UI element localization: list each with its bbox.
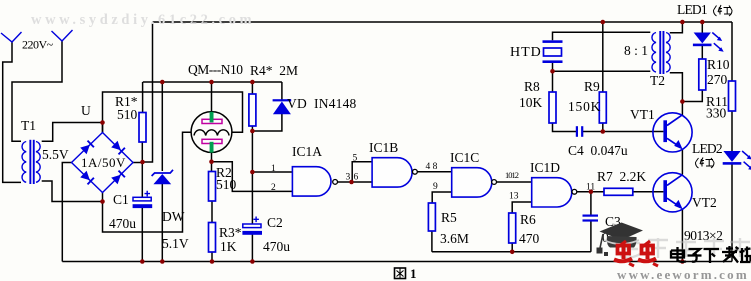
node VT1 collector junction <box>680 99 685 104</box>
svg-text:DW: DW <box>162 209 185 224</box>
resistor R8 <box>549 92 556 123</box>
wire sensor top lead <box>211 82 213 112</box>
glyph zai <box>722 246 739 263</box>
svg-text:470: 470 <box>519 231 540 246</box>
svg-text:C1: C1 <box>113 192 129 207</box>
svg-text:R3*: R3* <box>219 225 242 240</box>
svg-text:6: 6 <box>354 173 359 183</box>
svg-text:R10: R10 <box>707 57 730 72</box>
wire U node to bridge top <box>102 123 104 134</box>
svg-text:13: 13 <box>509 192 519 202</box>
gas sensor QM-N10 <box>191 112 232 153</box>
svg-text:R7 2.2K: R7 2.2K <box>597 169 646 184</box>
wire R2 to R3 <box>211 201 213 223</box>
wire R6 bottom lead <box>511 243 513 252</box>
wire R10 bottom to collector node <box>682 90 702 102</box>
bridge diode lower-right <box>111 170 125 184</box>
svg-text:1A/50V: 1A/50V <box>81 155 126 170</box>
svg-text:270: 270 <box>707 72 728 87</box>
resistor R5 <box>428 203 435 231</box>
resistor R1 <box>139 113 146 143</box>
node sensor top junction <box>209 80 214 85</box>
watermark site name glyphs <box>671 246 751 263</box>
wire VD bottom lead <box>252 114 282 131</box>
label (red)2 glyph <box>696 158 715 169</box>
transformer T1 <box>22 140 40 184</box>
svg-text:IC1A: IC1A <box>292 144 322 159</box>
watermark red bug 1 <box>614 241 634 266</box>
wire antenna left down <box>3 42 21 182</box>
transformer T2 8:1 <box>652 31 670 74</box>
node R6 bottom junction <box>510 250 515 255</box>
transistor VT2 <box>653 173 692 212</box>
svg-text:C4 0.047u: C4 0.047u <box>568 143 628 158</box>
svg-text:3.6M: 3.6M <box>440 231 469 246</box>
svg-text:IC1D: IC1D <box>530 160 560 175</box>
svg-text:510: 510 <box>117 107 138 122</box>
node U junction <box>100 120 105 125</box>
wire DW zener top lead <box>161 82 163 171</box>
svg-text:1K: 1K <box>220 239 237 254</box>
node sensor bottom junction <box>209 159 214 164</box>
svg-text:R8: R8 <box>524 79 540 94</box>
wire R3 bottom lead <box>211 252 213 262</box>
svg-text:470u: 470u <box>109 216 136 231</box>
svg-text:1: 1 <box>271 164 276 174</box>
wire sensor bottom lead to R2 <box>211 152 213 172</box>
wire IC1B output to IC1C pin8 <box>417 171 451 173</box>
wire R1 bottom lead to node <box>141 142 143 197</box>
wire R1 top lead <box>142 82 144 113</box>
svg-text:220V~: 220V~ <box>22 38 54 52</box>
glyph xia <box>704 249 720 263</box>
node R4 bottom junction <box>250 129 255 134</box>
node C2 ground junction <box>250 259 255 264</box>
node R4 top junction <box>250 80 255 85</box>
wire VD top lead <box>281 82 283 100</box>
wire top +V rail <box>153 21 733 23</box>
transistor VT1 <box>653 113 692 152</box>
wire bridge minus to ground <box>62 163 72 262</box>
wire C3 top lead <box>590 192 592 215</box>
wire T1 secondary bottom to bridge bottom <box>42 181 103 202</box>
svg-text:9: 9 <box>433 182 438 192</box>
wire V+ drop from top rail to bridge output node <box>143 22 153 162</box>
wire C2 bottom lead <box>251 234 253 262</box>
wire heater left return <box>103 132 192 232</box>
wire VT1 emitter to VT2 collector <box>681 149 683 175</box>
svg-text:R9: R9 <box>584 79 600 94</box>
resistor R6 <box>509 213 516 243</box>
resistor R11 <box>729 81 736 111</box>
svg-text:T1: T1 <box>21 118 36 133</box>
wire bridge plus lead <box>133 162 144 164</box>
wire R9 bottom lead <box>602 123 604 132</box>
svg-text:R5: R5 <box>441 210 457 225</box>
capacitor C4 <box>576 126 584 137</box>
wire T2 secondary bottom to VT1 collector <box>670 73 683 116</box>
wire IC1D output to R7 <box>577 191 604 193</box>
svg-text:4 8: 4 8 <box>426 162 438 172</box>
node HTD bottom junction <box>550 69 555 74</box>
wire LED2 to ground rail <box>731 164 733 262</box>
watermark graduation cap <box>597 223 644 257</box>
wire bridge bottom lead <box>102 192 104 202</box>
bridge diode upper-right <box>111 141 125 155</box>
caption fig 1 <box>395 266 417 281</box>
wire R11 to LED2 <box>731 111 733 151</box>
glyph zi <box>688 249 702 262</box>
antenna right <box>52 30 73 41</box>
wire sensor supply rail y82 <box>143 81 282 83</box>
svg-text:QM---N10: QM---N10 <box>188 62 243 77</box>
wire HTD top to T2 primary top <box>553 32 651 40</box>
buzzer HTD <box>543 40 563 63</box>
node VT2 emitter ground junction <box>680 259 685 264</box>
node pin1 junction <box>250 170 255 175</box>
wire T2 secondary top to rail <box>670 22 683 33</box>
capacitor C1 <box>133 191 153 208</box>
node DW top junction <box>160 80 165 85</box>
zener diode DW <box>152 170 173 184</box>
wire antenna right down <box>12 41 62 141</box>
wire LED1 top lead from rail <box>701 22 703 33</box>
svg-text:11: 11 <box>586 183 595 193</box>
svg-text:VT1: VT1 <box>630 107 655 122</box>
wire node A to IC1A pin2 <box>212 162 293 192</box>
bridge diode upper-left <box>80 140 94 154</box>
svg-text:1: 1 <box>410 266 417 281</box>
wire IC1B pin5 jumper <box>352 162 372 182</box>
LED2 <box>723 151 751 170</box>
node IC1A output junction <box>349 180 354 185</box>
node bridge+ junction <box>140 160 145 165</box>
watermark red bug 2 <box>638 241 658 266</box>
glyph dian <box>671 247 686 262</box>
resistor R4 <box>249 94 256 126</box>
wire IC1D pin13 to R6 <box>512 202 532 213</box>
antenna left <box>1 32 22 42</box>
svg-text:3: 3 <box>346 173 351 183</box>
wire IC1A output to IC1B pin6 <box>338 181 373 183</box>
nand gate IC1D <box>532 178 577 207</box>
label (red)1 glyph <box>714 5 733 16</box>
wire ground bottom rail <box>62 261 732 263</box>
svg-text:150K: 150K <box>568 99 601 114</box>
resistor R3 <box>209 223 216 253</box>
wire R4 top lead <box>251 82 253 94</box>
svg-text:IC1C: IC1C <box>450 150 479 165</box>
svg-text:VD IN4148: VD IN4148 <box>287 96 357 111</box>
node R9 bottom junction <box>601 129 606 134</box>
capacitor C2 <box>242 217 262 235</box>
svg-text:LED2: LED2 <box>692 141 722 156</box>
svg-text:2: 2 <box>271 183 276 193</box>
svg-text:1012: 1012 <box>505 170 519 180</box>
wire LED1 to R10 <box>701 45 703 60</box>
wire T1 secondary top to U <box>42 123 103 142</box>
bridge rectifier 1A/50V <box>72 133 134 193</box>
svg-text:10K: 10K <box>519 95 543 110</box>
wire node U riser and heater top feed <box>103 92 243 133</box>
svg-text:8 : 1: 8 : 1 <box>624 43 648 58</box>
wire IC1C output to IC1D pin12 <box>496 181 531 183</box>
diode VD <box>273 99 292 114</box>
resistor R9 <box>599 92 606 123</box>
wire HTD bottom to T2 primary bottom <box>553 63 651 71</box>
svg-text:330: 330 <box>706 106 727 121</box>
wire C4 to VT1 base <box>583 131 663 133</box>
resistor R10 <box>699 59 706 90</box>
wire VT2 emitter to ground <box>681 210 683 262</box>
wire C3 bottom lead <box>590 222 592 252</box>
nand gate IC1A <box>292 167 337 196</box>
wire IC1C pin9 to R5 <box>432 192 452 203</box>
node C1 ground junction <box>140 259 145 264</box>
capacitor C3 <box>583 215 599 222</box>
node IC1D output junction <box>589 190 594 195</box>
node R3 ground junction <box>210 259 215 264</box>
svg-text:VT2: VT2 <box>692 195 717 210</box>
svg-text:5.5V: 5.5V <box>42 147 69 162</box>
bridge diode lower-left <box>80 171 94 185</box>
resistor R2 <box>209 172 216 202</box>
watermark faint big text <box>620 238 750 258</box>
glyph zhan <box>740 247 751 263</box>
node R9 top rail junction <box>601 20 606 25</box>
node bridge bottom junction <box>100 199 105 204</box>
wire R8 bottom to C4 <box>553 123 577 132</box>
node LED1 rail junction <box>700 20 705 25</box>
wire R8 top lead <box>552 71 554 92</box>
svg-text:5.1V: 5.1V <box>162 236 189 251</box>
svg-text:U: U <box>81 103 91 118</box>
svg-text:R4* 2M: R4* 2M <box>250 63 298 78</box>
svg-text:470u: 470u <box>263 239 290 254</box>
svg-text:510: 510 <box>216 177 237 192</box>
wire R7 to VT2 base <box>633 191 664 193</box>
svg-text:5: 5 <box>353 154 358 164</box>
svg-text:IC1B: IC1B <box>369 140 398 155</box>
wire R9 top lead from rail <box>602 22 604 92</box>
svg-text:www.sydzdiy.61c22.com: www.sydzdiy.61c22.com <box>31 12 255 28</box>
nand gate IC1C <box>452 168 497 197</box>
LED1 <box>693 33 724 52</box>
svg-text:R6: R6 <box>520 212 536 227</box>
node DW ground junction <box>160 259 165 264</box>
svg-text:LED1: LED1 <box>677 2 707 17</box>
wire DW zener bottom lead <box>161 184 163 262</box>
svg-text:C2: C2 <box>267 215 283 230</box>
nand gate IC1B <box>372 158 417 187</box>
resistor R7 <box>604 188 633 195</box>
svg-text:HTD: HTD <box>510 45 542 60</box>
svg-text:T2: T2 <box>650 73 665 88</box>
wire R5 bottom lead <box>431 231 433 252</box>
wire gnd sub-rail R5 R6 C3 <box>432 251 591 253</box>
wire node B to IC1A pin1 <box>252 171 292 173</box>
svg-text:www.eeworm.com: www.eeworm.com <box>617 267 749 281</box>
node T2 rail junction <box>680 20 685 25</box>
wire C1 bottom lead <box>141 208 143 262</box>
wire R4 bottom to C2 <box>251 126 253 224</box>
wire right column rail to R11 <box>731 22 733 81</box>
